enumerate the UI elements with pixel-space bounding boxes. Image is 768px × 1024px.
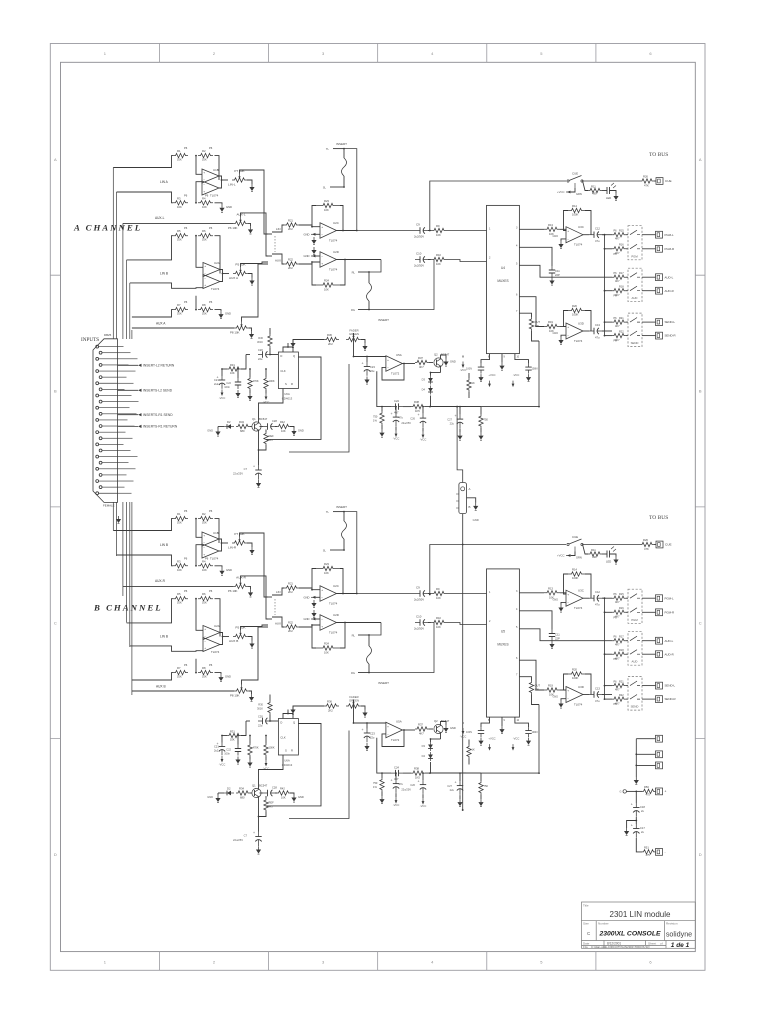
svg-text:of: of <box>660 941 663 945</box>
svg-text:GND: GND <box>552 332 558 335</box>
wire B: AUX input line <box>123 585 233 587</box>
relay B:K-SEND <box>628 677 642 711</box>
svg-text:−: − <box>204 634 206 638</box>
potentiometer A:P7 10K LIN-L <box>228 169 252 187</box>
potentiometer B:P-FADER <box>346 695 365 710</box>
svg-text:−: − <box>321 233 323 237</box>
connector J1 pins 1-25 <box>96 345 118 494</box>
svg-text:C18: C18 <box>640 805 645 809</box>
svg-text:R21: R21 <box>619 317 624 320</box>
svg-text:R34: R34 <box>239 420 244 424</box>
svg-text:C26: C26 <box>410 417 415 421</box>
svg-text:-VCC: -VCC <box>420 804 427 808</box>
resistor A:R14 100K feedback <box>564 204 592 235</box>
svg-text:TL074: TL074 <box>329 239 338 243</box>
power tap A:+VCC at CUE switch <box>557 188 582 196</box>
svg-text:TL074: TL074 <box>574 606 583 610</box>
svg-text:D4: D4 <box>422 388 426 392</box>
connector J1 pin stub wires <box>118 347 139 494</box>
resistor A:R36 2K2 <box>293 333 339 346</box>
svg-text:+: + <box>253 465 255 469</box>
svg-text:+: + <box>567 229 569 233</box>
wire A:SEND-L to connector <box>642 321 656 323</box>
wire C17 down to R51 <box>636 838 642 852</box>
op-amp B:U2C TL074 <box>320 584 339 606</box>
svg-text:P6: P6 <box>205 556 209 560</box>
svg-text:+: + <box>391 412 393 416</box>
label TO BUS (channel B) <box>649 515 668 521</box>
resistor B:R20 100K feedback <box>564 668 592 695</box>
wire B:PGM-L to connector <box>642 597 656 599</box>
svg-text:-VCC: -VCC <box>219 763 226 767</box>
wire bundle from J1 down to channel B <box>113 502 132 695</box>
capacitor B:C24 4n7 <box>391 766 403 782</box>
switch A:S1 LIN/AUX selector <box>268 227 281 263</box>
svg-text:GND: GND <box>450 360 456 364</box>
wire B: input row 3 <box>127 599 173 623</box>
svg-text:Q1: Q1 <box>252 784 256 788</box>
capacitor A:C21 2u2 <box>214 368 225 389</box>
net tap INSERTS-L2 SEND <box>118 389 173 393</box>
svg-text:+: + <box>418 413 420 417</box>
svg-text:100K: 100K <box>269 379 275 383</box>
svg-text:100N: 100N <box>532 731 538 734</box>
svg-text:GRN: GRN <box>576 192 582 196</box>
svg-text:R34: R34 <box>239 787 244 791</box>
svg-text:10K: 10K <box>177 205 182 209</box>
wire A:P8 wiper up <box>242 264 269 322</box>
svg-text:U2D: U2D <box>333 613 339 617</box>
connector J1 INPUTS DB25 body <box>81 333 118 508</box>
svg-text:A: A <box>469 487 471 491</box>
svg-text:10K: 10K <box>324 208 329 212</box>
diode B:D4 <box>422 752 466 773</box>
resistor A:R23 OUT 10K vertical <box>519 313 540 341</box>
ground at B:C7 <box>256 847 261 855</box>
svg-text:+: + <box>362 728 364 732</box>
svg-text:Q2: Q2 <box>434 353 438 357</box>
border column numbers <box>104 51 653 965</box>
svg-text:R17: R17 <box>619 272 624 275</box>
svg-text:U2C: U2C <box>333 221 339 225</box>
capacitor A:C11 22P <box>519 247 560 277</box>
svg-text:+: + <box>321 625 323 629</box>
svg-text:CUE: CUE <box>572 172 578 176</box>
wire A: send top feed <box>604 321 612 323</box>
wire A:U5A feedback <box>382 364 404 381</box>
svg-text:GND: GND <box>226 205 232 209</box>
svg-text:RL: RL <box>352 634 356 638</box>
wire A: input row 3 <box>127 236 173 260</box>
capacitor B:C23 22u <box>362 722 376 742</box>
svg-text:10K: 10K <box>436 262 441 266</box>
capacitor B:C7 22u/25V <box>233 807 262 847</box>
svg-text:D: D <box>54 852 57 857</box>
power tap B:-VCC bias <box>460 722 467 739</box>
transistor B:Q1 BC547 <box>250 755 283 807</box>
svg-text:P6: P6 <box>209 226 213 230</box>
svg-text:2K2: 2K2 <box>288 266 293 270</box>
svg-text:R37: R37 <box>418 723 423 727</box>
svg-text:LIN-L: LIN-L <box>228 183 236 187</box>
svg-text:SEND-L: SEND-L <box>665 320 676 324</box>
ground at A:R41 <box>478 433 483 441</box>
svg-text:+: + <box>253 831 255 835</box>
resistor B:R2 10K <box>195 509 213 525</box>
svg-text:R26: R26 <box>643 175 648 179</box>
svg-text:-: - <box>665 850 666 854</box>
svg-text:C28: C28 <box>272 419 277 423</box>
wire A:CUE pickup <box>429 181 566 231</box>
title block: Title label <box>583 904 589 908</box>
svg-text:+: + <box>203 190 205 194</box>
capacitor A:C15 100N decoupling <box>525 364 537 374</box>
svg-text:LIN A: LIN A <box>160 180 169 184</box>
svg-text:C24: C24 <box>394 399 399 403</box>
wire A: input row 5 <box>132 310 173 317</box>
wire A:VCA control joint <box>456 406 458 408</box>
svg-text:2K2: 2K2 <box>328 342 333 346</box>
svg-text:+: + <box>321 262 323 266</box>
svg-text:Q: Q <box>293 721 295 725</box>
op-amp B:U2A TL074 <box>203 624 220 640</box>
potentiometer B:P5 10K AUX B <box>229 626 252 644</box>
svg-text:R7: R7 <box>177 303 181 307</box>
wire B: output distribution bus <box>604 598 606 699</box>
capacitor A:C13 47u <box>583 323 612 340</box>
svg-text:R21: R21 <box>288 582 293 586</box>
svg-text:CUE: CUE <box>665 543 672 547</box>
net tap INSERTS-R1 SEND <box>118 413 174 417</box>
svg-text:D4: D4 <box>422 754 426 758</box>
label A: AUX-L net <box>155 216 165 220</box>
svg-text:AUD-L: AUD-L <box>665 639 674 643</box>
resistor B:R15 4K7 <box>612 593 628 604</box>
svg-text:100K: 100K <box>269 746 275 750</box>
svg-text:TL072: TL072 <box>391 738 400 742</box>
resistor A:R15 4K7 <box>612 229 628 240</box>
svg-text:RG: RG <box>351 308 355 312</box>
connector J2 link A-B <box>456 483 471 514</box>
svg-text:+: + <box>362 362 364 366</box>
connector CN3 +15V <box>656 788 667 795</box>
resistor B:R24 10K feedback <box>311 623 345 655</box>
wire B:U5 pin5 to AUD <box>519 629 612 641</box>
capacitor B:C20 22u <box>246 715 278 728</box>
wire A:U4 pin to U3C <box>519 228 544 230</box>
svg-text:P6: P6 <box>184 226 188 230</box>
svg-text:INSERT: INSERT <box>336 505 347 509</box>
svg-text:R11: R11 <box>591 185 596 189</box>
svg-text:47K: 47K <box>644 184 649 188</box>
svg-text:C10: C10 <box>416 252 422 256</box>
svg-text:C27: C27 <box>447 418 452 422</box>
svg-text:Q: Q <box>293 354 295 358</box>
svg-text:P8 10K: P8 10K <box>230 694 240 698</box>
svg-text:10K: 10K <box>324 571 329 575</box>
ground at B:C22 <box>235 757 240 765</box>
ground above B:U6A <box>290 707 295 715</box>
resistor B:R21 2K2 <box>278 582 320 596</box>
svg-text:R1: R1 <box>177 149 181 153</box>
border zone tick marks <box>50 44 705 971</box>
svg-text:CLK: CLK <box>280 369 285 373</box>
svg-text:GND: GND <box>226 568 232 572</box>
svg-text:PGM: PGM <box>631 618 638 622</box>
svg-text:+: + <box>455 414 457 418</box>
capacitor B:C15 100N decoupling <box>525 727 537 737</box>
title block: Date row <box>583 941 621 945</box>
ground below A:C14 <box>478 374 483 382</box>
wire A:U5A output <box>402 363 415 365</box>
svg-text:C13: C13 <box>595 687 600 691</box>
ground at A:R32 <box>247 393 252 401</box>
ground at A:R39 <box>379 430 384 438</box>
svg-text:PGM-R: PGM-R <box>665 610 675 614</box>
resistor A:R23 10K feedback <box>311 199 343 231</box>
svg-text:22u/25V: 22u/25V <box>401 788 411 792</box>
ground at B:U3C plus <box>552 599 566 613</box>
svg-text:10K: 10K <box>177 521 182 525</box>
ground at A:C27 <box>457 433 462 441</box>
svg-text:10K: 10K <box>177 675 182 679</box>
power pins below B:U5 <box>481 717 529 727</box>
op-amp A:U3C TL074 <box>566 225 584 247</box>
ground at B:P8 <box>249 694 254 702</box>
resistor B:R40 1K vertical <box>467 740 475 765</box>
svg-text:C:\plan-xq\E-CIRCUITO\LIN2301\: C:\plan-xq\E-CIRCUITO\LIN2301\TODOS.SQ <box>591 945 650 949</box>
connector B:AUD-R <box>656 651 674 658</box>
svg-text:C: C <box>54 620 57 625</box>
wire B:P5 wiper to insert switch <box>241 625 269 630</box>
svg-text:+: + <box>418 780 420 784</box>
ground at A:C23 <box>364 377 369 385</box>
label B: AUX-B net <box>156 685 166 689</box>
resistor A:R12 47K <box>582 175 656 188</box>
svg-text:P6: P6 <box>184 509 188 513</box>
svg-text:22u: 22u <box>370 369 375 373</box>
potentiometer A:P-FADER <box>346 329 365 344</box>
ground at A:P6 <box>248 226 253 234</box>
resistor A:R40 1K vertical <box>467 373 475 398</box>
svg-text:4K7: 4K7 <box>615 279 620 283</box>
capacitor B:C11 22P <box>519 611 560 641</box>
svg-text:U5A: U5A <box>396 720 402 724</box>
svg-text:SEND-R: SEND-R <box>665 697 676 701</box>
svg-text:2u2/50V: 2u2/50V <box>414 598 424 602</box>
title block: Revision label <box>666 922 678 926</box>
svg-text:−: − <box>204 639 206 643</box>
op-amp B:U1B TL074 <box>202 531 219 546</box>
svg-text:R24: R24 <box>324 279 329 283</box>
ground at B:P5 <box>249 641 254 649</box>
svg-text:22u: 22u <box>258 724 263 728</box>
svg-text:D2: D2 <box>227 787 231 791</box>
wire B: input row 4 <box>130 646 203 651</box>
svg-text:R36: R36 <box>327 700 332 704</box>
svg-text:solidyne: solidyne <box>666 930 692 939</box>
svg-text:R16: R16 <box>619 607 624 610</box>
svg-text:C: C <box>699 620 702 625</box>
svg-text:C23: C23 <box>370 732 375 736</box>
resistor A:R21 4K7 <box>612 317 628 328</box>
svg-text:GND: GND <box>304 254 310 258</box>
resistor B:R3 10K <box>173 556 188 572</box>
svg-text:C20: C20 <box>258 348 263 352</box>
wire B: op-amp outputs join <box>219 539 228 551</box>
svg-text:-VCC: -VCC <box>219 396 226 400</box>
resistor B:R42 10K <box>275 787 294 800</box>
svg-text:R20: R20 <box>572 668 577 672</box>
ground below B:C15 <box>526 738 531 746</box>
capacitor B:C27 22u <box>447 772 463 799</box>
svg-text:47u: 47u <box>595 336 600 340</box>
svg-text:TL074: TL074 <box>211 650 220 654</box>
connector B:PGM-R <box>656 609 675 616</box>
svg-text:10K: 10K <box>535 688 540 692</box>
ground at A:C22 <box>235 390 240 398</box>
ground at B:P-FADER <box>362 710 367 718</box>
svg-text:P6: P6 <box>184 300 188 304</box>
svg-text:File: File <box>583 945 588 949</box>
svg-text:AUX: AUX <box>275 622 281 626</box>
wire A:P7 wiper to insert switch <box>240 170 269 234</box>
ground at B:C23 <box>364 743 369 751</box>
op-amp B:U2D TL074 <box>320 613 339 635</box>
ground at B:R32 <box>247 760 252 768</box>
resistor B:R6 10K <box>195 589 213 605</box>
capacitor A:C9 2u2/50V <box>414 223 430 239</box>
svg-text:R3: R3 <box>177 196 181 200</box>
power tap A:-VCC at C26 <box>420 432 427 442</box>
resistor A:R32 470K vertical <box>248 368 259 393</box>
resistor A:R22 2K2 <box>278 254 320 270</box>
svg-text:2u2/50V: 2u2/50V <box>414 627 424 631</box>
wire CN2 common down <box>635 739 637 777</box>
svg-text:AUD-R: AUD-R <box>665 652 674 656</box>
wire B: send top feed <box>604 685 612 687</box>
svg-text:R38: R38 <box>414 400 419 404</box>
svg-text:10K: 10K <box>202 158 207 162</box>
svg-text:S: S <box>285 749 287 753</box>
wire A: row5 feedback <box>195 296 197 310</box>
wire A: control feed down <box>538 341 540 407</box>
op-amp A:U2A TL074 <box>203 261 220 277</box>
resistor A:R24 10K feedback <box>311 260 345 292</box>
label TO BUS (channel A) <box>649 152 668 158</box>
svg-text:R24: R24 <box>324 642 329 646</box>
resistor B:R5 10K <box>173 589 188 605</box>
resistor A:R2 10K <box>195 146 213 162</box>
IC A:U4 MUXES <box>487 205 520 353</box>
svg-text:LIN B: LIN B <box>160 272 168 276</box>
svg-text:C9: C9 <box>416 586 420 590</box>
resistor B:R18 4K7 <box>604 649 628 661</box>
svg-text:TL074: TL074 <box>329 602 338 606</box>
svg-text:+: + <box>321 225 323 229</box>
wire A: input row 2 <box>117 192 174 203</box>
potentiometer B:P8 10K <box>230 685 252 698</box>
svg-text:22u: 22u <box>450 788 455 792</box>
svg-text:4K7: 4K7 <box>615 600 620 604</box>
connector B:PGM-L <box>656 595 675 602</box>
capacitor B:C21 2u2 <box>214 735 225 756</box>
svg-text:10K: 10K <box>281 429 286 433</box>
capacitor B:C10 2u2/50V <box>414 615 430 631</box>
svg-text:R21: R21 <box>288 219 293 223</box>
title block: solidyne <box>666 930 692 939</box>
wire B: row3 node to op-amp <box>196 599 220 637</box>
svg-text:GND: GND <box>207 429 213 433</box>
ground below A:U4 <box>499 363 504 371</box>
svg-text:AUX: AUX <box>275 259 281 263</box>
jack A:J-INSERT top <box>323 142 358 231</box>
svg-text:−: − <box>204 271 206 275</box>
ground below A:C15 <box>526 374 531 382</box>
label B: LIN BB net <box>160 635 168 639</box>
svg-text:U6A: U6A <box>284 759 290 763</box>
svg-text:−: − <box>567 600 569 604</box>
resistor A:R38 1K5 <box>403 400 540 413</box>
svg-text:R2: R2 <box>202 512 206 516</box>
svg-text:D: D <box>699 852 702 857</box>
svg-text:R26: R26 <box>643 538 648 542</box>
switch B:SW-CUE <box>567 535 583 552</box>
wire B:SEND-L to connector <box>642 685 656 687</box>
svg-text:R8: R8 <box>202 303 206 307</box>
svg-text:A: A <box>54 157 57 162</box>
power tap A:-VCC left <box>219 390 226 401</box>
svg-text:SEND: SEND <box>631 341 639 345</box>
potentiometer A:P5 10K AUX A <box>229 263 252 281</box>
wire A: row2 to op-amp plus <box>196 182 202 203</box>
svg-text:10K: 10K <box>177 238 182 242</box>
svg-text:GRN: GRN <box>576 556 582 560</box>
svg-text:C13: C13 <box>595 323 600 327</box>
ground at B:R39 <box>379 796 384 804</box>
op-amp A:U5A TL072 <box>386 353 403 376</box>
svg-text:P6: P6 <box>209 663 213 667</box>
svg-text:SL: SL <box>323 186 327 190</box>
power tap A:-VCC bias <box>460 356 467 373</box>
svg-text:750: 750 <box>484 784 489 788</box>
wire A:U4 pin to U3D <box>519 297 544 327</box>
power tap B:-VCC at R33 <box>263 760 270 771</box>
op-amp B:U3C TL074 <box>566 589 584 611</box>
svg-text:R3: R3 <box>177 559 181 563</box>
svg-text:U2C: U2C <box>333 584 339 588</box>
svg-text:R30: R30 <box>258 703 263 707</box>
wire B:U5A feedback <box>382 730 404 747</box>
svg-text:C12: C12 <box>595 590 600 594</box>
svg-text:RL: RL <box>352 271 356 275</box>
svg-text:GND: GND <box>304 617 310 621</box>
wire B: input row 2 <box>117 555 174 566</box>
wire B: input row 1 <box>113 519 173 531</box>
wire A:fader wiper to buffer <box>353 333 386 357</box>
capacitor B:C25 47u <box>391 772 404 797</box>
svg-text:R36: R36 <box>327 333 332 337</box>
resistor A:R1 10K <box>173 146 188 162</box>
power tap A:-VCC below IC <box>512 373 520 387</box>
svg-text:A: A <box>699 157 702 162</box>
resistor B:R14 100K feedback <box>564 568 592 599</box>
svg-text:2u2/50V: 2u2/50V <box>414 235 424 239</box>
svg-text:−: − <box>203 546 205 550</box>
svg-text:+: + <box>455 781 457 785</box>
connector A:SEND-R <box>656 332 676 339</box>
svg-text:AUD-L: AUD-L <box>665 275 674 279</box>
